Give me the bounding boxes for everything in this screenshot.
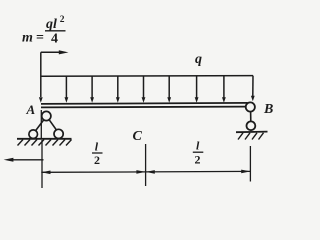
- svg-text:C: C: [133, 129, 143, 144]
- svg-text:B: B: [263, 102, 273, 117]
- load arrow 4: [117, 76, 119, 98]
- extension line at B: [249, 146, 251, 182]
- svg-text:m: m: [22, 31, 33, 46]
- load arrow 5: [143, 76, 145, 98]
- extension line at C: [145, 144, 147, 186]
- support A: pin circle: [42, 111, 51, 120]
- reaction arrow pointing left below support A: [10, 159, 44, 161]
- svg-text:2: 2: [94, 153, 100, 167]
- load arrow 6: [168, 76, 170, 98]
- svg-text:=: =: [36, 30, 44, 45]
- support A: left leg: [36, 120, 44, 130]
- svg-text:ql: ql: [46, 17, 57, 32]
- dimension line C to B: [146, 170, 251, 173]
- support A: ground hatching: [18, 140, 72, 146]
- moment arrow (bent, arrowhead right): [41, 51, 62, 53]
- dimension line A to C: [41, 171, 145, 173]
- support B: roller circle: [247, 121, 256, 130]
- support B: ground hatching: [238, 133, 264, 140]
- load arrow 1: [39, 97, 43, 103]
- load arrow 3: [91, 76, 93, 98]
- load arrow 2: [65, 76, 67, 98]
- svg-text:2: 2: [60, 15, 65, 25]
- wire: vertical line at A (moment arm / extension line): [40, 52, 42, 97]
- beam (double line): [41, 103, 248, 104]
- dimension label l/2 (right): [195, 139, 201, 167]
- distributed load top line: [41, 75, 253, 78]
- load arrow 9: [252, 76, 254, 96]
- support A: right leg: [49, 120, 56, 130]
- svg-text:2: 2: [195, 153, 201, 167]
- load arrow 8: [223, 76, 225, 98]
- support B: link: [250, 112, 252, 122]
- load arrow 7: [196, 76, 198, 98]
- moment label m = ql^2/4: [22, 15, 65, 47]
- support B: hinge circle at beam end: [246, 102, 255, 111]
- svg-text:4: 4: [51, 32, 58, 47]
- svg-text:A: A: [26, 102, 36, 117]
- support A: left roller: [29, 130, 38, 139]
- dimension label l/2 (left): [94, 140, 100, 168]
- moment fraction bar: [45, 30, 66, 32]
- support A: ground line: [17, 138, 72, 140]
- support A: right roller: [54, 129, 63, 138]
- support B: ground line: [236, 131, 268, 134]
- svg-text:q: q: [195, 52, 202, 67]
